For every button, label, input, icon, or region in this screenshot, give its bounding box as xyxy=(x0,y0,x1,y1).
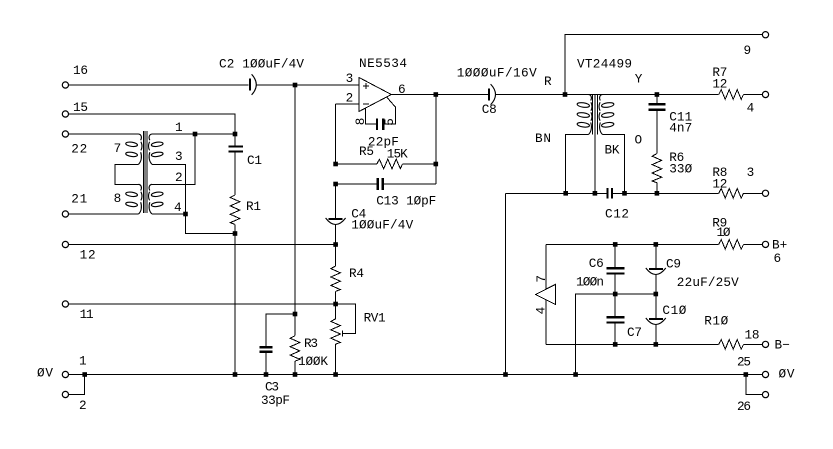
wire terminal 9 xyxy=(565,35,762,95)
svg-text:C12: C12 xyxy=(605,207,629,222)
capacitor C11 xyxy=(649,95,693,136)
junction R1 bottom xyxy=(233,231,238,236)
junction C6-C7 mid xyxy=(613,292,618,297)
svg-text:R1Ø: R1Ø xyxy=(704,314,728,329)
junction 0V x266 xyxy=(264,372,269,377)
svg-text:4n7: 4n7 xyxy=(669,121,692,136)
svg-text:6: 6 xyxy=(774,251,782,266)
terminal 15 xyxy=(62,100,88,117)
junction C13 left xyxy=(333,182,338,187)
svg-text:12: 12 xyxy=(80,248,96,263)
capacitor 22pF xyxy=(368,118,399,149)
capacitor C12 xyxy=(605,188,629,222)
svg-text:1Ø: 1Ø xyxy=(717,225,731,240)
capacitor C8 xyxy=(457,66,537,118)
wire tap3 down-link xyxy=(152,164,186,214)
wire 15 xyxy=(69,114,235,134)
op-amp U1 NE5534 xyxy=(346,56,407,112)
transformer VT24499 secondary winding xyxy=(599,95,614,135)
svg-text:VT24499: VT24499 xyxy=(577,57,632,72)
resistor R7 xyxy=(712,65,762,99)
svg-text:C2 1ØØuF/4V: C2 1ØØuF/4V xyxy=(219,57,304,72)
terminal 18 B- xyxy=(762,338,789,353)
svg-text:R5: R5 xyxy=(359,144,374,159)
svg-text:4: 4 xyxy=(747,101,755,116)
terminal 26 xyxy=(737,392,769,415)
wire terminal 2 link xyxy=(69,375,85,395)
svg-text:7: 7 xyxy=(534,275,549,283)
junction R5 left xyxy=(333,162,338,167)
junction output-feedback xyxy=(434,92,439,97)
junction R3 top xyxy=(293,312,298,317)
svg-text:C9: C9 xyxy=(666,257,681,272)
svg-text:22uF/25V: 22uF/25V xyxy=(677,275,739,290)
svg-text:B−: B− xyxy=(775,338,790,353)
resistor R5 xyxy=(336,144,436,169)
capacitor C4 xyxy=(326,207,414,245)
junction terminal 2 xyxy=(82,372,87,377)
junction VT primary top xyxy=(563,92,568,97)
junction R5 right xyxy=(434,162,439,167)
svg-text:R3: R3 xyxy=(304,336,318,351)
terminal 2 xyxy=(62,391,86,413)
junction secondary bottom xyxy=(622,191,627,196)
capacitor C6 xyxy=(576,244,625,294)
svg-text:4: 4 xyxy=(174,200,182,215)
svg-text:1: 1 xyxy=(79,354,87,369)
transformer T1 core xyxy=(143,131,147,213)
wire C2 to op-amp pin 3 xyxy=(256,84,359,86)
resistor R4 xyxy=(331,245,364,305)
wire pin2 xyxy=(336,103,359,105)
wire tap1 row xyxy=(152,133,235,135)
svg-text:ØV: ØV xyxy=(779,367,795,382)
wire 16 to C2 xyxy=(69,84,249,86)
junction 0V x505 xyxy=(503,372,508,377)
capacitor C2 xyxy=(219,57,304,95)
svg-text:22: 22 xyxy=(71,142,87,157)
junction R6 bottom xyxy=(655,191,660,196)
resistor R10 xyxy=(704,314,762,350)
wire rail right of C12 xyxy=(612,192,719,194)
pin 5 lead xyxy=(382,97,397,126)
terminal 21 xyxy=(62,192,87,218)
wire VT secondary bottom xyxy=(603,135,625,194)
terminal 12 xyxy=(62,241,95,262)
wire pin2 node down to C4 xyxy=(335,184,337,218)
svg-text:4: 4 xyxy=(534,307,549,315)
svg-text:3: 3 xyxy=(747,165,755,180)
wire C8 to VT and R7 xyxy=(495,94,719,96)
capacitor C7 xyxy=(607,294,643,344)
wire 22 to transformer primary xyxy=(69,133,139,135)
terminal 16 xyxy=(62,63,88,88)
terminal 3 xyxy=(747,165,769,196)
svg-text:1ØØn: 1ØØn xyxy=(576,275,604,290)
junction C4-12wire xyxy=(333,242,338,247)
wire mid rail to 0V xyxy=(576,294,656,375)
junction 0V x235 xyxy=(233,372,238,377)
resistor R8 xyxy=(712,165,762,198)
transformer T1 winding 7 xyxy=(114,134,142,164)
wire BN rail down to 0V xyxy=(505,193,507,374)
svg-text:C1Ø: C1Ø xyxy=(662,303,686,318)
junction tap1-tap2 xyxy=(193,132,198,137)
svg-text:15K: 15K xyxy=(387,147,408,162)
junction 0V x335 xyxy=(333,372,338,377)
terminal 22 xyxy=(62,131,87,157)
junction C7 bottom xyxy=(613,342,618,347)
junction C9-C10 mid xyxy=(654,292,659,297)
svg-text:1ØØK: 1ØØK xyxy=(298,354,328,369)
wire output pin6 xyxy=(391,94,488,96)
capacitor C1 xyxy=(229,134,263,195)
potentiometer RV1 xyxy=(331,304,386,375)
svg-text:C8: C8 xyxy=(482,102,497,117)
node junction C2 out xyxy=(293,83,298,88)
wire tap2 up-link xyxy=(152,134,195,184)
svg-text:1: 1 xyxy=(175,120,183,135)
wire 12 xyxy=(69,244,338,246)
svg-text:2: 2 xyxy=(175,170,183,185)
wire VT primary bottom xyxy=(566,135,589,194)
terminal 11 xyxy=(62,301,93,322)
transformer T1 winding 1-3 xyxy=(149,134,164,164)
svg-text:1ØØØuF/16V: 1ØØØuF/16V xyxy=(457,66,537,81)
wire B- rail xyxy=(546,343,719,345)
junction R4-11wire xyxy=(333,302,338,307)
wire winding7 bottom link xyxy=(115,164,138,184)
svg-text:25: 25 xyxy=(737,355,751,370)
wire B+ rail xyxy=(546,243,719,245)
svg-text:11: 11 xyxy=(80,307,94,322)
terminal 6 B+ xyxy=(762,238,787,267)
wire R1 node down to 0V xyxy=(234,234,236,375)
junction C11 top xyxy=(655,92,660,97)
wire feedback down xyxy=(435,95,437,185)
svg-text:33Ø: 33Ø xyxy=(669,162,692,177)
svg-text:7: 7 xyxy=(114,141,122,156)
transformer T1 winding 8 xyxy=(114,184,142,214)
wire 21 to transformer primary xyxy=(69,213,139,215)
svg-text:12: 12 xyxy=(712,177,727,192)
junction 0V x295 xyxy=(293,372,298,377)
junction 0V x745 xyxy=(744,372,749,377)
pin 8 lead xyxy=(353,107,376,125)
wire node down to R3 top xyxy=(294,85,296,314)
svg-text:BN: BN xyxy=(535,131,551,146)
junction C10 bottom xyxy=(654,342,659,347)
wire screen rail left xyxy=(506,192,608,194)
svg-text:RV1: RV1 xyxy=(364,311,386,326)
transformer VT24499 primary winding xyxy=(577,95,592,135)
svg-text:9: 9 xyxy=(744,43,752,58)
wire 0V rail xyxy=(69,374,763,376)
capacitor C13 xyxy=(336,178,437,209)
svg-text:18: 18 xyxy=(745,328,760,343)
terminal 9 xyxy=(744,32,769,58)
svg-text:NE5534: NE5534 xyxy=(359,56,407,71)
svg-text:3: 3 xyxy=(175,149,183,164)
resistor R3 xyxy=(290,314,328,375)
resistor R1 xyxy=(230,195,261,234)
terminal 1 xyxy=(37,354,87,381)
svg-text:1ØØuF/4V: 1ØØuF/4V xyxy=(351,218,413,233)
svg-text:C1: C1 xyxy=(247,153,262,168)
junction C6 top xyxy=(613,242,618,247)
svg-text:2: 2 xyxy=(79,398,87,413)
junction C9 top xyxy=(654,242,659,247)
svg-text:15: 15 xyxy=(73,100,88,115)
terminal 25 0V xyxy=(737,355,795,382)
svg-text:2: 2 xyxy=(346,91,354,106)
junction 0V x575 xyxy=(573,372,578,377)
junction tap1-15wire-C1 xyxy=(233,132,238,137)
svg-text:33pF: 33pF xyxy=(261,393,290,408)
junction tap3-tap4 xyxy=(183,212,188,217)
svg-text:8: 8 xyxy=(114,191,122,206)
supply pins triangle U1 pwr xyxy=(534,244,556,344)
svg-text:26: 26 xyxy=(737,399,751,414)
svg-text:Y: Y xyxy=(635,72,643,87)
svg-text:BK: BK xyxy=(605,143,620,158)
svg-text:O: O xyxy=(635,133,643,148)
svg-text:ØV: ØV xyxy=(37,366,53,381)
terminal 4 xyxy=(747,91,769,115)
capacitor C3 xyxy=(259,314,295,408)
svg-text:R: R xyxy=(544,74,552,89)
wire pin2 down to feedback xyxy=(335,104,337,164)
svg-text:C13 1ØpF: C13 1ØpF xyxy=(376,194,436,209)
transformer VT24499 core xyxy=(577,57,632,194)
svg-text:16: 16 xyxy=(73,63,88,78)
svg-text:3: 3 xyxy=(346,71,354,86)
junction primary bottom xyxy=(563,191,568,196)
svg-text:R4: R4 xyxy=(349,266,364,281)
wire tap4 to R1 bottom xyxy=(186,214,236,234)
svg-text:8: 8 xyxy=(353,118,368,126)
junction screen xyxy=(593,191,598,196)
wire tap4 row xyxy=(152,213,186,215)
capacitor C10 xyxy=(646,294,687,344)
capacitor C9 xyxy=(646,244,739,294)
resistor R6 xyxy=(652,110,692,194)
wire 11 xyxy=(69,303,338,305)
svg-text:C6: C6 xyxy=(589,256,604,271)
svg-text:21: 21 xyxy=(71,192,87,207)
svg-text:R1: R1 xyxy=(246,199,261,214)
svg-text:C7: C7 xyxy=(627,325,642,340)
transformer T1 winding 2-4 xyxy=(149,184,164,214)
resistor R9 xyxy=(712,216,762,250)
wire terminal 26 link xyxy=(746,375,763,395)
svg-text:12: 12 xyxy=(712,77,727,92)
